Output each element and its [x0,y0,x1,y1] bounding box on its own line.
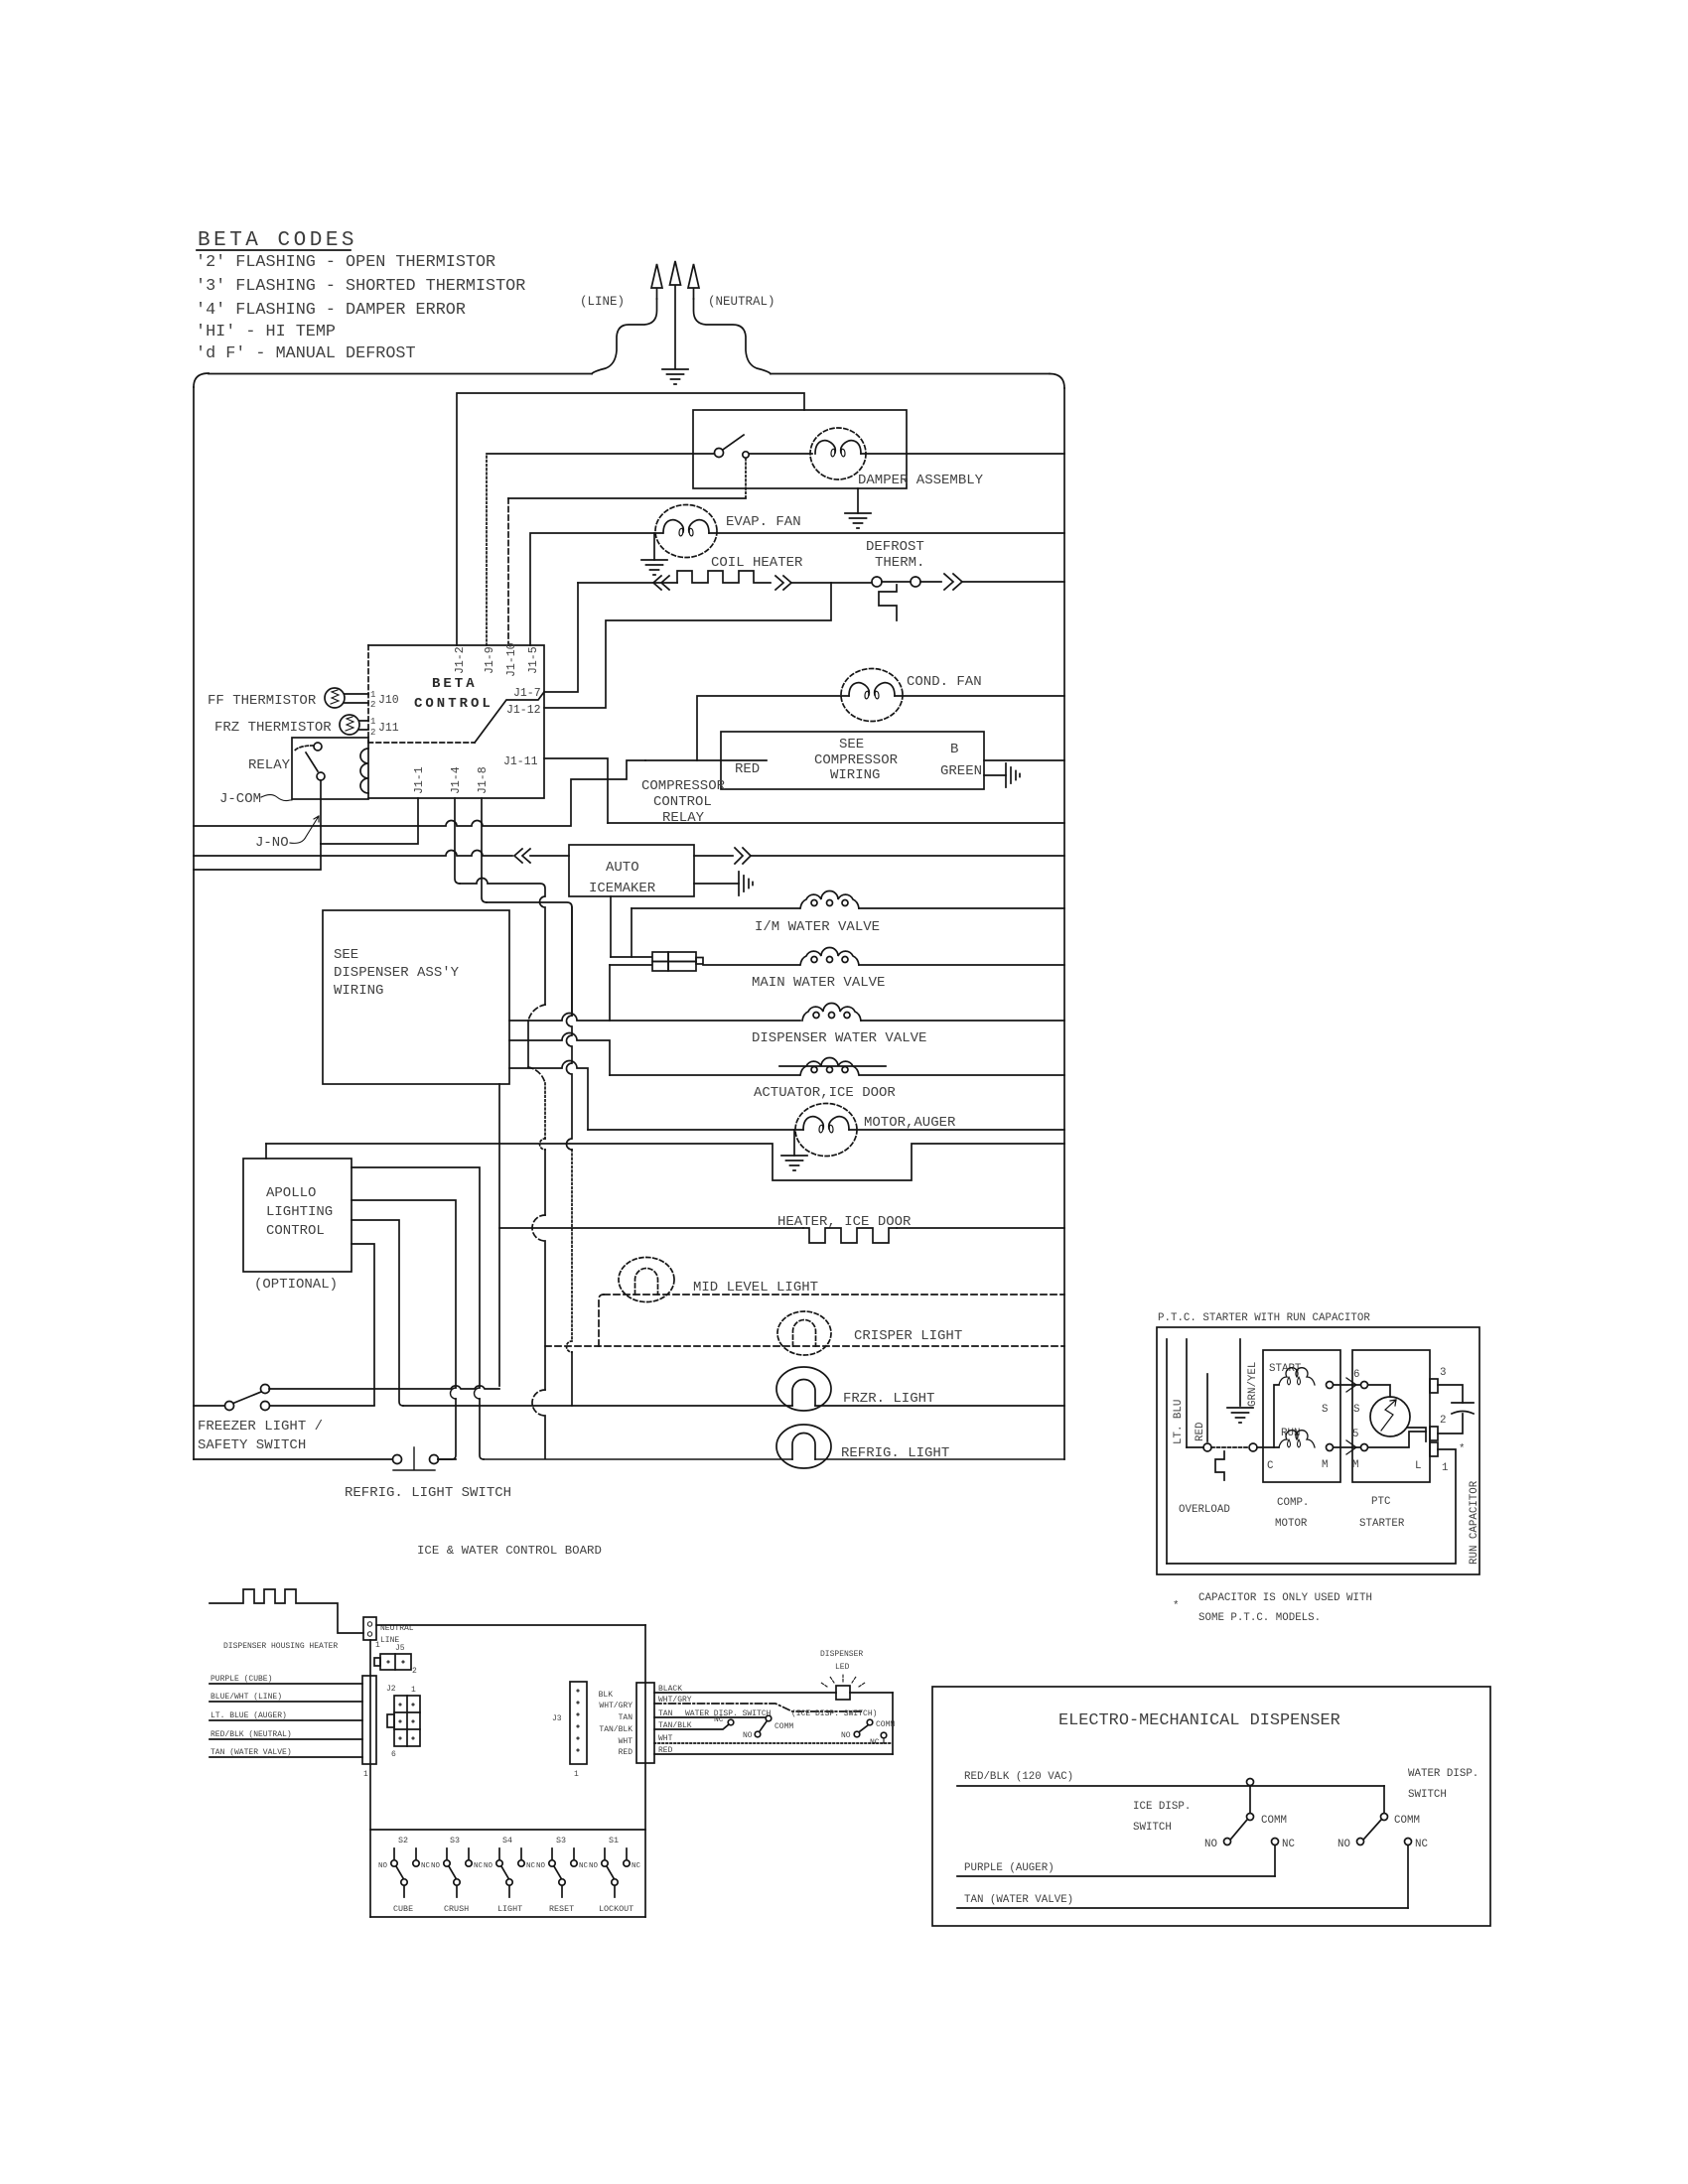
svg-text:FRZR. LIGHT: FRZR. LIGHT [843,1391,934,1407]
svg-text:BLUE/WHT (LINE): BLUE/WHT (LINE) [211,1693,282,1702]
wire LT.BLU vertical [1166,1339,1168,1564]
defrost therm contact B [911,577,920,587]
svg-text:6: 6 [1353,1369,1359,1381]
heater ice door element [803,1228,897,1243]
wire run through to L [1368,1432,1426,1447]
svg-text:*: * [1459,1443,1465,1455]
svg-text:DAMPER ASSEMBLY: DAMPER ASSEMBLY [858,473,984,488]
PTC disc circle [1370,1397,1410,1436]
FRZ thermistor circle [340,715,359,735]
ice disp comm [867,1719,873,1725]
svg-text:(ICE DISP. SWITCH): (ICE DISP. SWITCH) [791,1709,877,1718]
wire capacitor to pin2 level [1438,1414,1463,1433]
compressor wiring box [721,732,984,789]
FF thermistor zigzag [331,690,339,704]
defrost therm contact A [872,577,882,587]
cond fan coil [849,683,895,699]
pin1 jog over freezer wires [475,1388,481,1399]
connector arrows >> [775,576,791,590]
wire drop to ice comm [1249,1786,1251,1813]
board top edge / neutral wire [376,1624,645,1626]
dispenser housing heater element [210,1589,363,1633]
svg-text:MOTOR,AUGER: MOTOR,AUGER [864,1115,956,1131]
frzr light arch [792,1380,815,1407]
water disp NO terminal [1357,1839,1364,1845]
wire start to PTC [1334,1384,1360,1386]
mid level light arch [635,1269,658,1296]
wire main valve to right edge [859,964,1064,966]
wire connector B drop [609,965,611,1021]
wire apollo pin4 [352,1244,374,1405]
main box bottom edge middle segment [438,1458,456,1460]
svg-text:CRISPER LIGHT: CRISPER LIGHT [854,1328,962,1344]
freezer switch contact bottom [261,1402,270,1411]
svg-text:NO: NO [841,1731,851,1740]
svg-text:EVAP. FAN: EVAP. FAN [726,514,801,530]
mid level light circle [619,1258,674,1302]
connector arrows >> defrost [944,574,962,590]
pin 6 terminal [1361,1382,1368,1389]
relay blade [306,752,318,771]
svg-text:S4: S4 [502,1836,512,1845]
svg-text:RUN CAPACITOR: RUN CAPACITOR [1469,1480,1480,1565]
J-NO pointer [290,816,319,843]
svg-text:SAFETY SWITCH: SAFETY SWITCH [198,1437,306,1453]
ice disp blade [1231,1820,1247,1839]
plug prong N [688,264,699,299]
svg-text:RED/BLK (120 VAC): RED/BLK (120 VAC) [964,1771,1073,1783]
wire evap fan to right edge [709,532,1064,534]
wire lt blue [210,1719,362,1721]
heater connector [363,1617,376,1640]
ice disp NO [854,1731,860,1737]
motor auger dashed circle [795,1104,857,1157]
svg-text:LIGHT: LIGHT [497,1904,522,1914]
evap fan coil [663,520,709,536]
BETA control box dashed left edge [367,645,369,743]
water disp NO [755,1731,761,1737]
heater connector pin L [367,1632,371,1636]
wire I/M valve to right edge [859,907,1064,909]
pin 6 chevron [1346,1378,1356,1392]
svg-text:LED: LED [835,1663,850,1672]
svg-text:GRN/YEL: GRN/YEL [1247,1362,1259,1407]
svg-text:WATER DISP.: WATER DISP. [1408,1768,1478,1780]
svg-text:(OPTIONAL): (OPTIONAL) [254,1277,338,1293]
wire dotted contact B drop [745,459,747,498]
relay dashed lead [294,746,314,751]
svg-text:TAN/BLK: TAN/BLK [599,1725,633,1734]
wire J1-8 stub [482,798,487,902]
svg-text:TAN (WATER VALVE): TAN (WATER VALVE) [964,1894,1073,1906]
pin 5 chevron [1346,1440,1356,1454]
connector arrows << icemaker [514,849,530,863]
svg-text:FF THERMISTOR: FF THERMISTOR [208,693,317,709]
main water valve coil [800,948,859,966]
main box right edge [1063,388,1065,1459]
see dispenser assy wiring box [323,910,509,1084]
wire freezer switch to left edge [194,1405,224,1407]
comp motor box [1263,1350,1340,1482]
main box bottom edge left segment [194,1458,392,1460]
wire dispenser valve to right edge [861,1020,1064,1022]
svg-text:BETA CODES: BETA CODES [198,229,357,252]
wire J1-5 riser [530,533,662,645]
wire J1-4 jog to bus [460,879,545,1005]
svg-text:WHT: WHT [658,1734,673,1743]
overload dashed link [1211,1446,1249,1448]
bus 549 solid lower [544,1150,546,1458]
BETA internal diagonal trace [475,692,544,743]
overload terminal A [1203,1443,1211,1451]
svg-text:TAN: TAN [619,1713,633,1722]
main box top edge left segment [209,373,592,375]
svg-text:CUBE: CUBE [393,1904,413,1914]
wire actuator lead [610,1074,799,1076]
svg-text:PURPLE (CUBE): PURPLE (CUBE) [211,1675,272,1684]
ice disp blade [860,1725,868,1731]
wire red/blk [210,1738,362,1740]
wire red/blk [957,1785,1384,1787]
svg-text:ICEMAKER: ICEMAKER [589,881,656,896]
svg-text:FRZ THERMISTOR: FRZ THERMISTOR [214,720,332,736]
svg-text:J1-12: J1-12 [506,704,541,717]
wire refrig light [484,1458,1064,1460]
wire disc to pin6 wire [1368,1385,1390,1397]
freezer switch contact top [261,1385,270,1394]
wire freezer switch upper to see box [269,1386,499,1389]
relay contact bottom [317,772,325,780]
svg-text:ACTUATOR,ICE DOOR: ACTUATOR,ICE DOOR [754,1085,896,1101]
wire tan [210,1756,362,1758]
BETA control box solid edges [368,645,544,798]
water disp switch comm [766,1715,772,1721]
svg-text:SWITCH: SWITCH [1408,1789,1447,1801]
BETA internal dashed trace [368,742,475,744]
svg-text:LIGHTING: LIGHTING [266,1204,333,1220]
svg-text:'2' FLASHING - OPEN THERMISTOR: '2' FLASHING - OPEN THERMISTOR [196,253,495,272]
wire pin3 to capacitor [1438,1385,1463,1403]
water disp blade [760,1721,767,1731]
wire arrows to box [530,855,569,857]
start winding coil [1279,1368,1315,1385]
wire right loop vertical [892,1693,894,1754]
wire disc to pin2 [1407,1428,1426,1441]
wire J1-11 to compressor bus [544,758,608,823]
ice disp comm terminal [1247,1814,1254,1821]
svg-text:1: 1 [411,1686,416,1695]
bus 549 jog at return wire [540,1139,546,1150]
wire apollo top riser [265,1144,267,1159]
PTC outer box [1157,1327,1479,1574]
refrig switch contact right [430,1455,439,1464]
svg-text:NC: NC [714,1715,724,1724]
wire between contacts [882,581,911,583]
svg-text:S2: S2 [398,1836,408,1845]
svg-text:PURPLE (AUGER): PURPLE (AUGER) [964,1862,1055,1874]
actuator coil [800,1058,859,1076]
svg-text:M: M [1322,1459,1328,1471]
wire J1-4 stub [455,798,460,884]
svg-text:NO: NO [484,1862,493,1870]
wire green to right edge [984,759,1064,761]
svg-text:GREEN: GREEN [940,763,982,779]
main box top edge right segment [771,373,1050,375]
svg-text:RELAY: RELAY [662,810,705,826]
svg-text:NO: NO [1204,1839,1217,1850]
wire defrost to right edge [962,581,1064,583]
svg-text:COMPRESSOR: COMPRESSOR [814,752,899,768]
svg-text:PTC: PTC [1371,1496,1391,1508]
dispenser LED rays [821,1675,865,1687]
wire damper feed [487,453,714,455]
svg-text:SWITCH: SWITCH [1133,1822,1172,1834]
wire crisper dashed [545,1345,1064,1347]
svg-text:COIL HEATER: COIL HEATER [711,555,803,571]
svg-text:AUTO: AUTO [606,860,639,876]
svg-text:NC: NC [1282,1839,1295,1850]
wire from neutral prong to box top [694,299,772,374]
damper switch contact A [715,449,724,458]
svg-text:MAIN WATER VALVE: MAIN WATER VALVE [752,975,885,991]
svg-text:NO: NO [589,1862,599,1870]
svg-text:SEE: SEE [334,947,358,963]
wire heater ice door to right edge [897,1227,1064,1229]
wire actuator to right edge [860,1074,1064,1076]
svg-text:COMP.: COMP. [1277,1497,1309,1509]
svg-text:J2: J2 [386,1685,396,1694]
bus return arc to 549 [528,1067,545,1083]
refrig switch contact left [393,1455,402,1464]
svg-text:CAPACITOR IS ONLY USED WITH: CAPACITOR IS ONLY USED WITH [1198,1592,1372,1604]
electro-mechanical dispenser box [932,1687,1490,1926]
wire tan [957,1907,1408,1909]
wire heater to defrost [791,582,872,584]
run capacitor plates [1452,1403,1474,1414]
wire apollo pin3 [352,1220,403,1406]
svg-text:S: S [1322,1404,1328,1416]
wire I/M drop to main feed [631,908,633,957]
left connector [362,1676,376,1764]
svg-text:DISPENSER HOUSING HEATER: DISPENSER HOUSING HEATER [223,1642,338,1651]
wire red feed [645,759,767,761]
svg-text:CRUSH: CRUSH [444,1904,469,1914]
wire wht dotted [654,1742,893,1744]
svg-text:COMM: COMM [1394,1815,1420,1827]
wire evap ground stem [653,533,655,560]
board left edge [369,1640,371,1917]
motor auger coil [803,1117,849,1133]
J-COM pointer [261,795,292,801]
svg-text:NC: NC [579,1862,589,1870]
water disp blade [1364,1820,1381,1839]
svg-text:3: 3 [1440,1367,1446,1379]
run winding coil [1279,1431,1315,1447]
crisper light arch [793,1320,816,1347]
svg-text:COMPRESSOR: COMPRESSOR [641,778,726,794]
svg-text:CONTROL: CONTROL [266,1223,325,1239]
wire J1-1 stub [321,798,418,844]
wire NC to tan [1407,1845,1409,1908]
defrost therm element step [879,585,897,620]
overload terminal B [1249,1443,1257,1451]
wire terminal B to motor [1257,1446,1274,1448]
ground GRN/YEL [1227,1408,1253,1423]
svg-text:S3: S3 [450,1836,460,1845]
svg-text:J1-9: J1-9 [484,646,496,674]
relay box [292,738,368,799]
wire motor to right edge [849,1129,1064,1131]
board bottom edge [370,1916,645,1918]
FF thermistor pins [345,694,368,703]
freezer switch blade [234,1392,261,1403]
pin 5 terminal [1361,1444,1368,1451]
main box top-right corner [1050,374,1064,389]
wire actuator feed [509,1033,610,1076]
wire return detour under motor [266,1144,1064,1180]
tan/blk NC terminal [728,1719,734,1725]
svg-text:COND. FAN: COND. FAN [907,674,982,690]
svg-text:RED/BLK (NEUTRAL): RED/BLK (NEUTRAL) [211,1730,292,1739]
damper switch blade [723,435,744,450]
wire black [654,1692,893,1694]
J3 connector [570,1682,587,1764]
frzr light circle [776,1367,831,1411]
wire icemaker drop [610,896,612,957]
pin 2 tab [1430,1427,1438,1440]
J2 connector grid [394,1696,420,1746]
apollo lighting control box [243,1159,352,1272]
svg-text:1: 1 [574,1770,579,1779]
svg-text:J1-4: J1-4 [450,766,463,794]
svg-text:NO: NO [743,1731,753,1740]
ice disp NO terminal [1224,1839,1231,1845]
wire purple [210,1683,362,1685]
FRZ thermistor pins [359,721,368,730]
svg-text:J1-1: J1-1 [413,766,426,794]
svg-text:DISPENSER ASS'Y: DISPENSER ASS'Y [334,965,460,981]
svg-text:CONTROL: CONTROL [414,696,493,712]
svg-text:NC: NC [1415,1839,1428,1850]
wire tan [654,1716,765,1718]
wire frzr light [403,1405,1064,1407]
PTC disc zigzag [1381,1400,1396,1431]
svg-text:RED: RED [619,1748,633,1757]
svg-text:6: 6 [391,1750,396,1759]
svg-text:L: L [1415,1460,1421,1472]
wire neutral bus to right edge [608,822,1064,824]
wire drop to water comm [1383,1786,1385,1813]
svg-text:I/M WATER VALVE: I/M WATER VALVE [755,919,880,935]
pin2 jog over freezer wires [451,1388,456,1399]
svg-text:SEE: SEE [839,737,864,752]
refrig light arch [792,1433,815,1460]
svg-text:J1-11: J1-11 [503,755,538,768]
wire green ground stub [984,774,1006,776]
svg-text:WHT/GRY: WHT/GRY [599,1702,633,1710]
svg-text:LT. BLUE (AUGER): LT. BLUE (AUGER) [211,1711,287,1720]
refrig light circle [776,1425,831,1468]
main box left edge [193,387,195,1459]
wire damper coil left [750,453,812,455]
cond fan dashed circle [841,669,903,722]
svg-text:REFRIG. LIGHT: REFRIG. LIGHT [841,1445,949,1461]
svg-text:RELAY: RELAY [248,757,291,773]
svg-text:LT. BLU: LT. BLU [1173,1400,1185,1444]
main box top-left corner [194,373,209,387]
svg-text:DISPENSER: DISPENSER [820,1650,863,1659]
svg-text:J1-10: J1-10 [505,642,518,677]
J5 connector [380,1654,411,1670]
svg-text:1: 1 [370,717,375,727]
ground damper [845,513,871,528]
wire red [654,1753,893,1755]
plug prong G [670,261,681,368]
svg-text:NO: NO [378,1862,388,1870]
svg-text:SOME P.T.C. MODELS.: SOME P.T.C. MODELS. [1198,1612,1321,1624]
bus 549 dotted segment [544,1083,546,1139]
wire apollo pin1 [352,1167,484,1459]
overload protector step [1215,1451,1224,1480]
wire from line prong to box top [592,299,657,374]
bus 576 jog at crisper wire [567,1341,572,1352]
wire defrost to arrows [920,581,941,583]
wire damper to right edge [861,453,1064,455]
wire apollo pin2 [352,1200,456,1459]
ice disp NC [881,1732,887,1738]
wire J1-10 link [508,497,746,499]
wire icemaker ground stub [694,883,739,885]
svg-text:DISPENSER WATER VALVE: DISPENSER WATER VALVE [752,1030,926,1046]
right connector [636,1683,654,1763]
svg-text:(NEUTRAL): (NEUTRAL) [708,295,775,309]
wire heater ice door [499,1227,803,1229]
PTC starter box [1352,1350,1430,1482]
svg-text:DEFROST: DEFROST [866,539,924,555]
title underline [197,249,351,251]
svg-text:J1-7: J1-7 [513,687,541,700]
svg-text:2: 2 [370,728,375,738]
dispenser water valve coil [802,1004,861,1022]
wire motor ground stem [793,1130,795,1156]
svg-text:C: C [1267,1460,1274,1472]
damper coil dashed circle [810,428,866,479]
bus 576 bottom segment [571,1352,573,1406]
wire I/M valve feed [632,907,799,909]
bus 549 hop over frzr wire [532,1390,545,1416]
svg-text:NC: NC [632,1862,641,1870]
wire motor feed [509,1061,588,1131]
freezer switch contact left [225,1402,234,1411]
bus 532 middle segment [527,1021,529,1067]
wire mid level dashed riser [599,1295,604,1346]
relay coil arcs on box edge [360,749,368,793]
svg-text:ELECTRO-MECHANICAL DISPENSER: ELECTRO-MECHANICAL DISPENSER [1058,1711,1340,1730]
svg-text:*: * [1173,1600,1179,1612]
auto icemaker box [569,845,694,896]
svg-text:J-NO: J-NO [255,835,289,851]
damper switch contact B [743,452,749,458]
wire mid level dashed [604,1294,1064,1296]
ground evap fan [641,560,667,575]
wire wht/gry dash-dot [654,1704,862,1711]
wire run to PTC [1334,1446,1360,1448]
svg-text:J1-5: J1-5 [527,646,540,674]
wire cond fan left [697,696,849,760]
wire freezer switch lower to apollo [270,1405,374,1407]
wire icemaker connector feed [611,956,651,958]
wire blue/wht [210,1701,362,1703]
